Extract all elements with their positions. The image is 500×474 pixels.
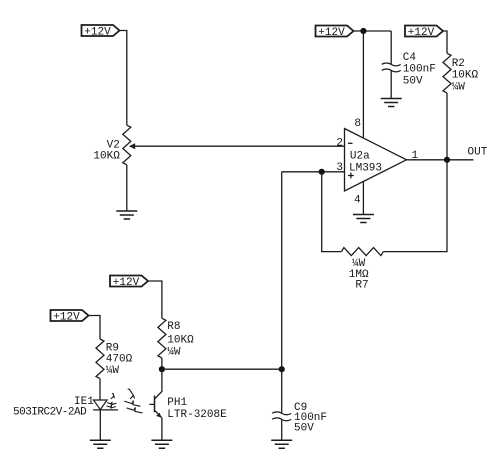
power flag +12V (V2 supply) [82,25,120,36]
wire (pin 8 supply) [362,31,364,137]
node junction [319,169,325,175]
node junction [360,28,366,34]
ground [271,440,292,448]
svg-text:470Ω: 470Ω [106,354,133,366]
svg-text:50V: 50V [403,75,423,87]
capacitor C4 [382,63,401,72]
svg-text:4: 4 [354,194,361,206]
svg-text:+12V: +12V [318,27,345,39]
svg-text:LM393: LM393 [349,163,382,175]
svg-text:+12V: +12V [84,26,111,38]
svg-text:¼W: ¼W [106,365,120,377]
phototransistor PH1 [149,369,162,440]
svg-text:+12V: +12V [408,27,435,39]
svg-text:R8: R8 [167,321,180,333]
wire [120,31,127,126]
light arrows to PH1 [124,389,142,413]
wire (pin 3 to C9 node) [281,172,283,369]
svg-text:+12V: +12V [53,311,80,323]
power flag +12V (R9 LED supply) [51,310,89,321]
wire (pin 1 output) [407,159,474,161]
svg-text:R9: R9 [106,342,119,354]
capacitor C9 [272,412,291,421]
svg-text:10KΩ: 10KΩ [167,334,194,346]
wire [390,71,392,99]
potentiometer V2 [123,125,135,165]
resistor R9 [96,339,104,379]
svg-text:R2: R2 [452,58,465,70]
wire (feedback right leg) [383,160,447,252]
svg-text:503IRC2V-2AD: 503IRC2V-2AD [13,407,87,419]
node junction OUT [444,157,450,163]
svg-text:10KΩ: 10KΩ [93,150,120,162]
svg-text:PH1: PH1 [167,397,187,409]
svg-text:¼W: ¼W [167,346,181,358]
svg-text:100nF: 100nF [403,64,436,76]
ground [381,99,402,107]
svg-text:OUT: OUT [468,147,488,159]
power flag +12V (R8 supply) [110,276,148,287]
node junction [279,366,285,372]
LED IE1 [93,400,118,410]
svg-text:U2a: U2a [350,151,370,163]
node junction [159,366,165,372]
wire [443,31,447,53]
svg-text:R7: R7 [355,279,368,291]
svg-text:2: 2 [336,138,343,150]
op-amp U2a LM393 [345,129,407,192]
wire [148,281,162,318]
wire [99,379,101,400]
svg-text:+12V: +12V [113,277,140,289]
svg-text:10KΩ: 10KΩ [452,70,479,82]
resistor R2 [443,53,451,93]
ground [353,215,374,223]
resistor R7 [342,248,384,256]
wire [446,93,448,160]
wire [89,316,101,340]
power flag +12V (op-amp / C4 supply) [316,26,354,37]
wire [281,369,283,413]
wire (wiper to op-amp pin 2) [133,145,345,147]
wire [281,420,283,440]
wire [390,31,392,64]
ground [151,440,172,448]
ground [90,440,111,448]
wire (pin 4) [362,181,364,214]
wire (feedback left leg) [322,172,342,252]
wire [354,30,392,32]
wire (pin 3 input) [282,171,345,173]
LED emission arrows [107,394,117,408]
svg-text:8: 8 [354,118,361,130]
svg-text:LTR-3208E: LTR-3208E [167,409,227,421]
svg-text:¼W: ¼W [352,258,366,270]
wire [99,410,101,440]
ground [116,211,137,219]
svg-text:C4: C4 [403,52,417,64]
power flag +12V (R2 pull-up supply) [405,26,443,37]
svg-text:¼W: ¼W [452,81,466,93]
wire [126,165,128,211]
svg-text:50V: 50V [294,423,314,435]
resistor R8 [158,318,166,358]
wire [161,358,163,369]
wire (node to C9 node) [162,368,282,370]
